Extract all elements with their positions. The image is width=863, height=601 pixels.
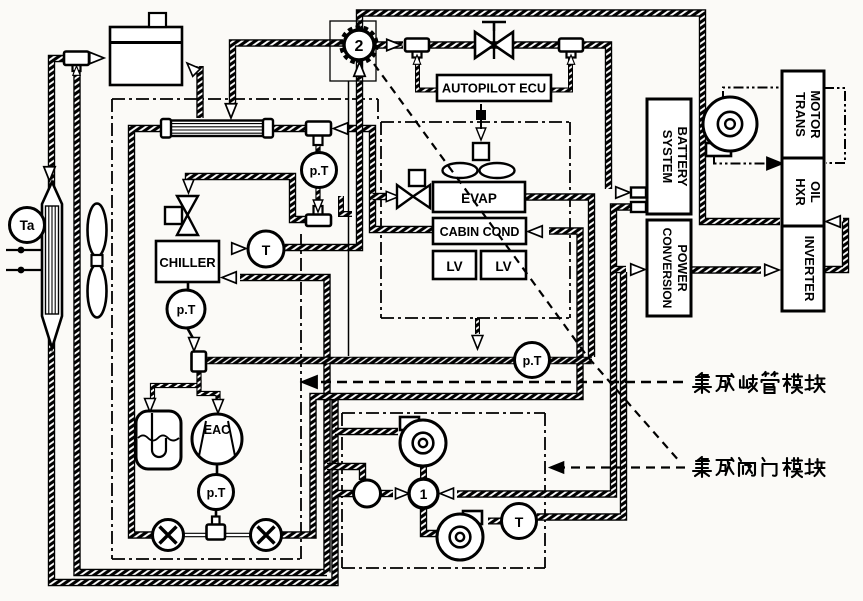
arrow into chiller return bbox=[222, 272, 236, 283]
arrow up into left valve tee bbox=[413, 55, 420, 64]
wire tee through coolant valve to tee bbox=[429, 41, 560, 48]
condenser C1 bbox=[161, 119, 273, 138]
svg-text:2: 2 bbox=[355, 38, 364, 55]
arrow up in left tee bbox=[73, 66, 80, 75]
accumulator tank with liquid bbox=[136, 411, 181, 469]
pressure temperature sensor pT4 bbox=[199, 475, 234, 510]
check valve circle bbox=[354, 480, 381, 507]
leader line manifold module bbox=[305, 381, 689, 384]
temperature sensor T1 bbox=[248, 231, 284, 267]
wire suction manifold horizontal bbox=[206, 357, 592, 364]
svg-text:1: 1 bbox=[420, 486, 428, 502]
arrow cabin vent down bbox=[472, 336, 483, 350]
wire outer left loop through receiver to valve module bbox=[52, 59, 336, 583]
wire condenser tee stem to pT sensor bbox=[315, 136, 320, 154]
wire condenser outlet to tee bbox=[273, 125, 307, 132]
dash-dot boundary integrated valve module box bbox=[342, 413, 545, 568]
receiver tank level line bbox=[110, 41, 182, 44]
LV radiator left bbox=[433, 251, 476, 279]
arrow into reservoir from tee bbox=[90, 52, 104, 63]
wire small elbow stub bbox=[341, 196, 352, 214]
water pump P2 bbox=[437, 511, 483, 560]
svg-text:POWER: POWER bbox=[675, 244, 689, 291]
wire power conversion branch down to temperature sensor bbox=[537, 272, 624, 517]
pressure temperature sensor pT1 bbox=[302, 153, 337, 188]
arrow into power conversion bbox=[631, 264, 645, 275]
shutoff valve X2 bbox=[251, 520, 282, 551]
wire tee down to battery system inlet bbox=[582, 45, 609, 189]
wire reservoir outlet down to condenser bbox=[196, 66, 203, 118]
boundary line from valve box down bbox=[348, 81, 350, 356]
oil pump M1 bbox=[703, 97, 757, 156]
evap expansion valve V3 bbox=[397, 170, 430, 208]
svg-text:LV: LV bbox=[495, 259, 511, 274]
svg-text:CABIN COND: CABIN COND bbox=[440, 225, 520, 239]
chiller expansion valve V2 bbox=[165, 196, 198, 235]
EAC electric compressor bbox=[192, 414, 242, 464]
arrow chiller to T sensor bbox=[232, 243, 246, 254]
cabin condenser box bbox=[433, 218, 526, 244]
tee fitting valve line right bbox=[559, 39, 583, 58]
cooling fan F1 bbox=[88, 204, 107, 318]
wire tee to autopilot ecu left bbox=[418, 57, 437, 90]
svg-text:p.T: p.T bbox=[523, 354, 542, 368]
oil pump to motor trans link bbox=[723, 88, 781, 102]
sensor leads with terminals bbox=[6, 247, 42, 274]
arrow into three-way valve left bbox=[396, 488, 410, 499]
leader line diagonal valve module bbox=[374, 64, 680, 462]
arrow into valve line tee bbox=[387, 39, 401, 50]
tee fitting liquid line bbox=[306, 206, 331, 226]
thin box around compressor valve unit bbox=[330, 21, 376, 81]
wire cabin module vent stub bbox=[475, 318, 480, 334]
filled arrow into oil hxr bbox=[767, 158, 782, 170]
evap blower fan bbox=[443, 104, 515, 178]
svg-text:HXR: HXR bbox=[793, 178, 808, 206]
tee fitting valve line left bbox=[405, 39, 429, 58]
power conversion box bbox=[647, 220, 691, 316]
wire battery return down to three-way valve right bbox=[457, 207, 632, 494]
arrow into cabin condenser bbox=[528, 226, 542, 237]
receiver drier vessel bbox=[42, 182, 62, 348]
svg-text:Ta: Ta bbox=[20, 218, 35, 233]
wire condenser left down to service valve bbox=[132, 129, 163, 536]
ambient temperature sensor Ta bbox=[10, 208, 45, 243]
arrow into inverter bbox=[765, 264, 779, 275]
wire three-way valve down to pump P2 inlet bbox=[424, 508, 442, 534]
tee fitting manifold vertical bbox=[192, 352, 207, 372]
svg-text:CHILLER: CHILLER bbox=[159, 255, 216, 270]
wire suction riser to temperature sensor bbox=[285, 61, 360, 248]
svg-text:LV: LV bbox=[446, 259, 462, 274]
wire liquid line to chiller expansion valve bbox=[189, 177, 307, 220]
wire manifold tee to accumulator tank bbox=[153, 371, 200, 399]
wire evap outlet down to suction manifold bbox=[525, 197, 592, 357]
arrow into chiller expansion valve bbox=[183, 180, 194, 194]
svg-text:OIL: OIL bbox=[808, 181, 823, 203]
water pump P1 bbox=[400, 417, 446, 466]
label integrated manifold module (Chinese) bbox=[693, 372, 825, 393]
LV radiator right bbox=[481, 251, 526, 279]
wire autopilot ecu right to tee bbox=[552, 57, 571, 90]
svg-text:TRANS: TRANS bbox=[793, 92, 808, 137]
svg-text:INVERTER: INVERTER bbox=[802, 236, 817, 302]
tee fitting service line bbox=[207, 517, 226, 540]
svg-text:EVAP: EVAP bbox=[461, 191, 497, 206]
wire inner left loop bottom bbox=[77, 70, 327, 573]
battery system box bbox=[647, 99, 691, 214]
oil pump to oil hxr link bbox=[714, 156, 766, 164]
wire compressor outlet to tee bbox=[376, 41, 404, 48]
arrow reservoir outlet bbox=[183, 59, 200, 76]
evaporator box bbox=[433, 182, 525, 212]
svg-text:EAC: EAC bbox=[204, 423, 230, 437]
arrow into condenser tee bbox=[334, 123, 348, 134]
wire to cabin condenser inlet bbox=[347, 129, 434, 230]
wire branch to evap expansion valve bbox=[373, 193, 388, 200]
wire pT sensor down to tee bbox=[315, 188, 320, 207]
wire EAC to pT sensor and tee bbox=[216, 462, 217, 525]
battery connector lower bbox=[631, 202, 646, 212]
wire chiller return down bbox=[240, 278, 327, 573]
arrow into three-way valve right bbox=[440, 488, 454, 499]
label integrated valve module (Chinese) bbox=[693, 457, 825, 477]
oil heat exchanger box bbox=[782, 158, 824, 226]
arrow into battery system bbox=[616, 187, 630, 198]
leader line valve module horizontal bbox=[556, 466, 689, 468]
svg-text:p.T: p.T bbox=[177, 303, 196, 317]
svg-text:p.T: p.T bbox=[207, 486, 226, 500]
svg-text:T: T bbox=[262, 242, 271, 258]
wire power conversion to inverter bbox=[691, 266, 761, 273]
pressure temperature sensor pT3 bbox=[515, 343, 550, 378]
four-way valve V1 bbox=[475, 22, 513, 60]
inverter box bbox=[782, 226, 824, 311]
receiver tank cap bbox=[149, 13, 166, 27]
wire inverter right loop to oil hxr bbox=[824, 222, 846, 270]
autopilot ECU box bbox=[437, 75, 551, 101]
arrow into accumulator tank bbox=[145, 399, 156, 413]
wire branch to check circle bbox=[335, 490, 356, 497]
arrow pT down to manifold tee bbox=[189, 338, 200, 352]
tee fitting T-left bbox=[64, 52, 89, 72]
svg-text:CONVERSION: CONVERSION bbox=[660, 228, 674, 309]
three-way valve circle 1 bbox=[409, 479, 438, 508]
arrow into evap expansion valve bbox=[386, 191, 399, 201]
leader arrow manifold module bbox=[302, 376, 317, 388]
svg-text:SYSTEM: SYSTEM bbox=[660, 130, 675, 183]
svg-text:p.T: p.T bbox=[310, 164, 329, 178]
svg-text:T: T bbox=[515, 514, 524, 530]
wire service loop up across to cabin condenser bbox=[281, 231, 580, 535]
arrow into condenser bbox=[225, 104, 236, 118]
wire check circle to three-way valve bbox=[380, 490, 393, 497]
wire branch to pump P1 inlet bbox=[335, 428, 398, 435]
arrow down to receiver drier bbox=[44, 167, 55, 181]
motor trans right oil loop bbox=[824, 88, 845, 163]
wire chiller to pT sensor stub bbox=[187, 282, 194, 340]
svg-text:BATTERY: BATTERY bbox=[675, 127, 690, 187]
arrow into oil hxr right bbox=[826, 216, 840, 227]
wire compressor circle to condenser inlet bbox=[233, 43, 344, 103]
wire branch to power conversion bbox=[614, 266, 627, 273]
motor trans box bbox=[782, 71, 824, 158]
wire branch over to check circle top bbox=[327, 467, 363, 481]
arrow fan motor down bbox=[476, 128, 486, 140]
wire top loop compressor to oil heat exchanger bbox=[360, 13, 781, 222]
compressor circle 2 bbox=[342, 28, 377, 63]
arrow into EAC compressor bbox=[213, 400, 224, 414]
leader arrow valve module bbox=[550, 462, 564, 473]
tee fitting condenser outlet bbox=[306, 122, 331, 146]
wire service line between shutoff valves bbox=[183, 533, 251, 538]
receiver tank R1 bbox=[110, 27, 182, 85]
wire manifold tee to EAC compressor bbox=[199, 380, 218, 399]
temperature sensor T2 bbox=[502, 504, 537, 539]
arrow up into compressor circle bbox=[354, 62, 365, 76]
svg-text:AUTOPILOT ECU: AUTOPILOT ECU bbox=[442, 81, 546, 96]
wire pump P1 outlet to three-way valve bbox=[420, 464, 427, 480]
dash-dot boundary cabin HVAC module box bbox=[381, 122, 570, 318]
battery connector upper bbox=[631, 188, 646, 198]
arrow up into right valve tee bbox=[567, 55, 574, 64]
arrow pT to liquid tee bbox=[313, 200, 323, 212]
shutoff valve X1 bbox=[153, 520, 184, 551]
svg-text:MOTOR: MOTOR bbox=[808, 90, 823, 139]
pressure temperature sensor pT2 bbox=[167, 290, 205, 328]
chiller box bbox=[156, 241, 219, 282]
dash-dot boundary integrated manifold module box bbox=[112, 99, 378, 559]
wire pump P2 outlet to temperature sensor bbox=[488, 518, 502, 525]
